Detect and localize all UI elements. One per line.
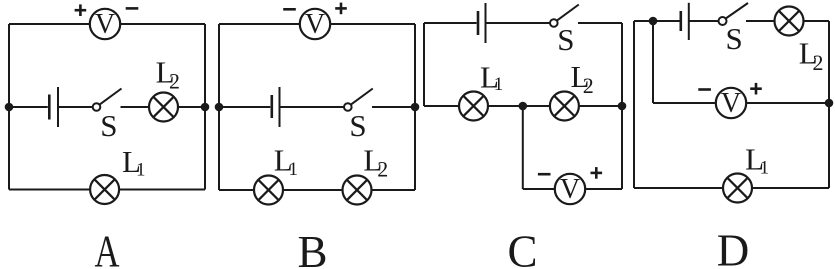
node right (circuit B junction dot)	[411, 103, 420, 112]
wire D voltmeter branch left horizontal	[653, 102, 716, 104]
wire C voltmeter branch right horizontal	[586, 188, 623, 190]
battery B3 (circuit C) positive long plate	[485, 3, 487, 43]
node right (circuit A junction dot)	[201, 103, 210, 112]
svg-text:V: V	[721, 88, 741, 119]
wire A switch to lamp L2	[121, 106, 150, 108]
wire C top-left (to battery)	[424, 22, 477, 24]
wire B between lamps	[283, 189, 343, 191]
svg-text:2: 2	[377, 157, 388, 182]
wire A middle-left (node to battery)	[9, 106, 48, 108]
node left (circuit A junction dot)	[5, 103, 14, 112]
wire C middle-left (to lamp L1)	[424, 105, 459, 107]
node mid (circuit C junction dot between lamps)	[519, 102, 528, 111]
wire A top-left (to voltmeter)	[9, 23, 90, 25]
wire B right vertical	[414, 24, 416, 190]
switch S (circuit B) pivot	[344, 103, 352, 111]
battery B2 (circuit B) negative short plate	[270, 95, 273, 118]
minus sign (right of V, circuit A)	[126, 7, 139, 10]
svg-text:D: D	[717, 226, 750, 269]
wire B top-left (to voltmeter)	[219, 23, 300, 25]
node right (circuit D junction dot)	[825, 99, 834, 108]
voltmeter U4 (V, circuit D)	[716, 88, 746, 118]
switch S (circuit D) pivot	[719, 17, 727, 25]
wire A top-right (from voltmeter)	[121, 23, 206, 25]
switch S (circuit D) lever	[726, 3, 748, 19]
minus sign (left of V, circuit C)	[538, 173, 551, 176]
wire B bottom-left (to lamp L1)	[219, 189, 254, 191]
plus sign (right of V, circuit B)	[335, 3, 347, 15]
svg-text:C: C	[507, 227, 537, 269]
lamp L2 (circuit A)	[149, 93, 178, 122]
lamp L1 (circuit C)	[459, 92, 488, 121]
lamp L2 (circuit D)	[775, 7, 804, 36]
wire A bottom-right	[119, 189, 205, 191]
wire A bottom-left (to lamp L1)	[9, 189, 90, 191]
switch S (circuit C) lever	[557, 5, 579, 21]
battery B3 (circuit C) negative short plate	[477, 11, 480, 35]
wire D right vertical	[828, 21, 830, 188]
svg-text:1: 1	[289, 159, 299, 180]
voltmeter U1 (V, circuit A)	[90, 9, 120, 39]
lamp L2 (circuit B)	[343, 176, 372, 205]
svg-text:V: V	[305, 9, 325, 40]
battery B1 (circuit A) negative short plate	[48, 95, 51, 120]
wire C voltmeter branch left horizontal	[523, 188, 555, 190]
wire B battery to switch	[280, 106, 345, 108]
voltmeter U3 (V, circuit C)	[555, 174, 585, 204]
svg-text:1: 1	[494, 74, 504, 95]
svg-text:1: 1	[136, 160, 146, 181]
switch S (circuit B) lever	[351, 89, 373, 105]
wire C lamp L2 to right node	[579, 105, 622, 107]
battery B4 (circuit D) negative short plate	[679, 11, 682, 31]
wire A left vertical	[8, 24, 10, 190]
minus sign (left of V, circuit D)	[698, 88, 711, 91]
svg-text:1: 1	[760, 157, 770, 178]
wire D voltmeter branch vertical	[652, 21, 654, 103]
minus sign (left of V, circuit B)	[283, 8, 296, 11]
wire C left vertical	[423, 23, 425, 106]
wire A lamp L2 to right node	[178, 106, 205, 108]
svg-text:B: B	[297, 227, 327, 269]
switch S (circuit C) pivot	[550, 19, 558, 27]
svg-text:A: A	[95, 227, 120, 269]
node left (circuit B junction dot)	[215, 103, 224, 112]
wire B bottom-right	[372, 189, 416, 191]
wire C switch to right	[578, 22, 622, 24]
wire A right vertical	[204, 24, 206, 190]
wire D bottom-left (to lamp L1)	[634, 187, 723, 189]
svg-text:S: S	[349, 108, 366, 143]
wire D left vertical	[633, 21, 635, 188]
svg-text:V: V	[560, 174, 580, 205]
plus sign (left of V, circuit A)	[75, 4, 87, 16]
wire C right vertical	[621, 23, 623, 189]
svg-text:S: S	[557, 22, 574, 57]
node right (circuit C junction dot)	[618, 102, 627, 111]
svg-text:2: 2	[169, 69, 180, 94]
battery B4 (circuit D) positive long plate	[688, 3, 690, 40]
wire D voltmeter branch right horizontal	[747, 102, 830, 104]
svg-text:S: S	[100, 108, 117, 143]
plus sign (right of V, circuit C)	[591, 167, 603, 179]
lamp L2 (circuit C)	[550, 92, 579, 121]
wire D lamp L2 to right corner	[804, 20, 830, 22]
wire D battery to switch	[689, 20, 719, 22]
svg-text:V: V	[95, 9, 115, 40]
plus sign (right of V, circuit D)	[750, 83, 762, 95]
wire C battery to switch	[486, 22, 551, 24]
wire D switch to lamp L2	[746, 20, 775, 22]
lamp L1 (circuit A)	[90, 175, 119, 204]
wire B switch to right node	[372, 106, 415, 108]
switch S (circuit A) lever	[100, 89, 122, 105]
switch S (circuit A) pivot	[93, 103, 101, 111]
wire B top-right (from voltmeter)	[331, 23, 416, 25]
wire C voltmeter branch vertical	[522, 106, 524, 189]
svg-text:S: S	[725, 21, 742, 56]
wire C between lamps	[488, 105, 550, 107]
wire B left vertical	[218, 24, 220, 190]
node top (circuit D junction dot on top wire)	[649, 17, 658, 26]
lamp L1 (circuit D)	[723, 174, 752, 203]
wire B middle-left (node to battery)	[219, 106, 270, 108]
svg-text:2: 2	[583, 73, 594, 98]
wire D top-left (to battery)	[634, 20, 680, 22]
battery B2 (circuit B) positive long plate	[279, 87, 281, 127]
voltmeter U2 (V, circuit B)	[300, 9, 330, 39]
lamp L1 (circuit B)	[254, 176, 283, 205]
wire A battery to switch	[58, 106, 93, 108]
battery B1 (circuit A) positive long plate	[57, 87, 59, 127]
wire D bottom-right	[752, 187, 829, 189]
svg-text:2: 2	[813, 50, 824, 75]
